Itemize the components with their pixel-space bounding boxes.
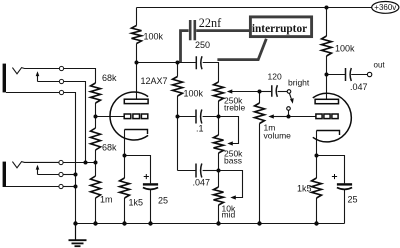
wire jack1 sleeve to ground rail xyxy=(64,93,76,224)
wire bass wiper loop xyxy=(219,117,239,144)
wire volume bottom lead xyxy=(259,124,261,224)
wire grid node down to 68k R3 xyxy=(95,117,97,129)
potentiometer P4 1m volume xyxy=(255,103,265,124)
jack J2 switch contact with arrow xyxy=(38,168,60,175)
jack J2 input body xyxy=(3,162,6,187)
capacitor C120 bright cap xyxy=(272,85,278,97)
svg-text:120: 120 xyxy=(268,72,282,82)
wire V1 cathode node to cap C25a xyxy=(125,156,151,184)
wire V1 plate lead xyxy=(136,63,138,100)
wire C25a bottom lead xyxy=(150,190,152,224)
jack J2 tip contact xyxy=(12,162,59,168)
resistor R2 68k (input 1 grid stopper) xyxy=(91,83,101,103)
wire treble bottom to bass to mid to ground xyxy=(218,101,220,224)
svg-text:treble: treble xyxy=(224,103,246,113)
wire bright switch lower lead xyxy=(288,110,290,116)
wire volume top lead xyxy=(259,92,261,104)
potentiometer P3 wiper arrow xyxy=(230,195,236,199)
wire C25b bottom lead xyxy=(344,190,346,224)
supply terminal +360v xyxy=(372,2,399,14)
switch SW2 bright xyxy=(287,90,292,111)
wire 120 cap left lead xyxy=(260,91,272,93)
wire 120 cap to bright switch xyxy=(278,91,288,93)
wire jack1 switch contact down to jack2 tip node xyxy=(64,82,86,163)
jack J1 terminals xyxy=(59,66,63,94)
svg-text:bass: bass xyxy=(224,156,242,166)
wire V1 cathode lead xyxy=(124,130,126,156)
capacitor C250 250pf treble cap xyxy=(196,56,202,69)
wire top supply bus xyxy=(137,7,373,9)
triode U1b cathode xyxy=(317,131,340,136)
svg-text:250: 250 xyxy=(195,40,210,50)
wire 250 cap to treble top xyxy=(203,63,219,83)
wire V1 plate node horizontal xyxy=(137,62,196,64)
triode U1a grid segments xyxy=(124,114,148,119)
svg-text:68k: 68k xyxy=(102,73,117,83)
jack J2 sleeve wire xyxy=(6,186,59,188)
triode U1a plate xyxy=(124,99,148,103)
wire 100k R7 leads xyxy=(326,8,328,75)
svg-text:22nf: 22nf xyxy=(199,16,222,30)
wire .1 cap row xyxy=(178,116,219,118)
svg-text:1m: 1m xyxy=(100,195,113,205)
svg-text:interruptor: interruptor xyxy=(252,23,307,35)
resistor R6 100k (tone stack slope) xyxy=(173,77,183,97)
capacitor C.047 output coupling xyxy=(346,68,352,81)
svg-text:.047: .047 xyxy=(350,82,368,92)
potentiometer P3 10k mid xyxy=(214,187,224,205)
svg-text:.1: .1 xyxy=(196,124,204,134)
output terminal xyxy=(367,72,371,76)
svg-text:1k5: 1k5 xyxy=(297,184,312,194)
svg-text:.047: .047 xyxy=(193,178,211,188)
potentiometer P1 250k treble xyxy=(214,82,224,101)
svg-text:mid: mid xyxy=(222,210,236,220)
triode U1a 12AX7 envelope xyxy=(110,92,148,140)
capacitor C25b electrolytic V2 bypass xyxy=(332,174,352,189)
svg-text:volume: volume xyxy=(264,131,292,141)
resistor R8 1k5 (V2 cathode) xyxy=(312,178,322,198)
wire jack2 tip wire xyxy=(63,162,95,164)
triode U1b grid segments xyxy=(316,114,338,119)
svg-text:out: out xyxy=(374,61,386,70)
svg-text:25: 25 xyxy=(348,195,358,205)
potentiometer P2 250k bass xyxy=(214,135,224,153)
svg-text:25: 25 xyxy=(158,196,168,206)
jack J2 terminals xyxy=(59,160,63,188)
capacitor C.047 mid cap xyxy=(196,164,202,178)
svg-text:100k: 100k xyxy=(335,44,355,54)
potentiometer P1 wiper arrow xyxy=(227,89,233,93)
wire 1k5 R5 leads xyxy=(124,156,126,224)
jack J1 switch contact with arrow xyxy=(38,75,60,82)
wire 100k R1 leads xyxy=(136,8,138,63)
jack J1 sleeve wire xyxy=(6,92,60,94)
wire V2 cathode lead xyxy=(316,131,318,156)
triode U1b plate xyxy=(315,99,338,103)
wire 68k R2 bottom lead and V1 grid xyxy=(96,103,125,117)
wire 68k R3 bottom to jack2 tip node xyxy=(95,150,97,163)
svg-text:100k: 100k xyxy=(184,89,204,99)
wire treble wiper to volume-top node xyxy=(232,91,260,93)
wire jack2 tip node to 1m xyxy=(95,163,97,224)
svg-text:bright: bright xyxy=(288,78,310,88)
svg-text:68k: 68k xyxy=(102,143,117,153)
potentiometer P4 wiper arrow xyxy=(268,114,274,118)
wire ground bus xyxy=(76,223,345,225)
wire V2 cathode node to cap C25b xyxy=(317,156,345,184)
wire jack2 switch contact xyxy=(63,174,75,176)
wire V2 plate lead xyxy=(326,75,328,100)
potentiometer P2 wiper arrow xyxy=(227,141,233,145)
svg-text:100k: 100k xyxy=(144,32,164,42)
capacitor C25a electrolytic V1 bypass xyxy=(143,174,158,189)
wire 1k5 R8 leads xyxy=(316,156,318,224)
jack J1 tip contact xyxy=(12,68,59,74)
svg-text:+360v: +360v xyxy=(374,3,396,12)
jack J1 input body xyxy=(3,64,6,93)
triode U1b 12AX7 envelope xyxy=(313,93,352,142)
svg-text:1k5: 1k5 xyxy=(129,198,144,208)
capacitor C22nf plates xyxy=(190,20,195,40)
wire volume wiper xyxy=(274,116,289,118)
switch SW1 interruptor thick wiring xyxy=(181,31,267,62)
wire slope-resistor column xyxy=(178,63,196,171)
triode U1a cathode xyxy=(125,130,148,135)
svg-text:12AX7: 12AX7 xyxy=(141,76,168,86)
switch SW1 interruptor box xyxy=(250,17,311,37)
resistor R5 1k5 (V1 cathode) xyxy=(120,178,130,198)
resistor R4 1m (input load) xyxy=(91,176,101,198)
capacitor C.1 bass cap xyxy=(196,110,202,124)
resistor R3 68k (input 2 grid stopper) xyxy=(91,128,101,150)
wire .047 cap right lead xyxy=(203,170,219,172)
wire mid wiper loop xyxy=(219,171,243,198)
wire out coupling cap leads xyxy=(327,74,368,76)
wire jack1 tip to 68k xyxy=(64,69,96,84)
ground symbol xyxy=(69,224,87,247)
wire jack2 sleeve xyxy=(63,186,75,188)
resistor R1 100k (V1 plate load) xyxy=(132,26,142,44)
resistor R7 100k (V2 plate load) xyxy=(322,36,332,56)
wire V2 grid xyxy=(289,116,316,118)
